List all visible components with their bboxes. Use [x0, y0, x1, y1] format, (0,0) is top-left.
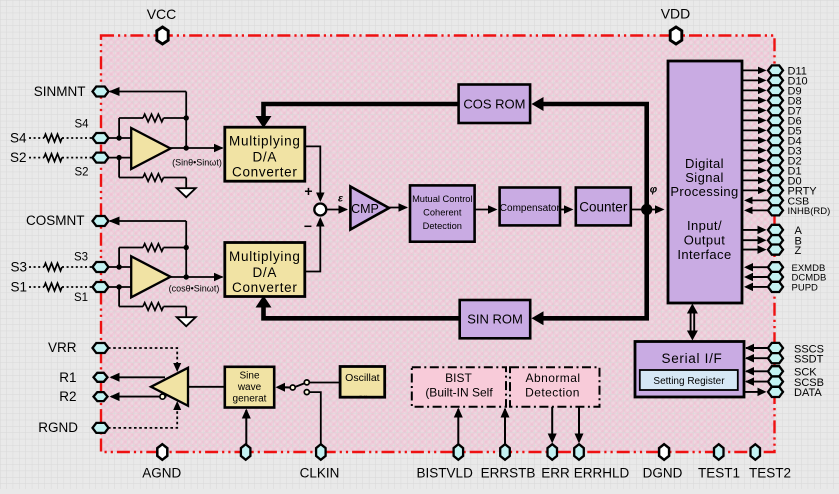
svg-text:TEST1: TEST1 — [698, 466, 740, 481]
svg-text:Serial I/F: Serial I/F — [661, 351, 722, 366]
svg-text:R2: R2 — [59, 389, 76, 404]
svg-text:Output: Output — [684, 233, 725, 248]
svg-text:(cosθ•Sinωt): (cosθ•Sinωt) — [169, 284, 220, 294]
svg-text:Detection: Detection — [423, 221, 462, 231]
svg-text:Coherent: Coherent — [423, 208, 462, 218]
svg-text:AGND: AGND — [142, 466, 181, 481]
svg-text:SINMNT: SINMNT — [34, 84, 86, 99]
svg-text:ERR: ERR — [541, 466, 570, 481]
svg-text:S4: S4 — [10, 131, 27, 146]
svg-text:(Sinθ•Sinωt): (Sinθ•Sinωt) — [172, 158, 222, 168]
svg-text:generat: generat — [233, 394, 267, 405]
svg-text:VDD: VDD — [661, 6, 691, 22]
svg-text:Interface: Interface — [677, 247, 731, 262]
svg-text:BIST: BIST — [445, 371, 472, 385]
svg-text:S2: S2 — [74, 167, 88, 179]
svg-text:RGND: RGND — [38, 420, 78, 435]
svg-text:ERRHLD: ERRHLD — [574, 466, 630, 481]
svg-text:VRR: VRR — [48, 340, 77, 355]
svg-text:Abnormal: Abnormal — [526, 371, 581, 385]
svg-text:D/A: D/A — [252, 265, 277, 280]
svg-text:Sine: Sine — [239, 371, 259, 382]
svg-text:(Built-IN Self: (Built-IN Self — [425, 386, 493, 400]
svg-text:Digital: Digital — [685, 156, 724, 171]
svg-text:−: − — [304, 218, 312, 234]
svg-text:S1: S1 — [10, 280, 27, 295]
svg-text:Setting Register: Setting Register — [653, 376, 725, 387]
svg-text:S1: S1 — [74, 292, 88, 304]
svg-text:BISTVLD: BISTVLD — [417, 466, 474, 481]
svg-text:DATA: DATA — [794, 387, 822, 399]
svg-text:Compensator: Compensator — [500, 203, 561, 214]
svg-text:ERRSTB: ERRSTB — [481, 466, 536, 481]
svg-text:+: + — [304, 183, 312, 199]
svg-text:SSDT: SSDT — [794, 354, 824, 366]
svg-text:CLKIN: CLKIN — [300, 466, 340, 481]
svg-text:S4: S4 — [74, 119, 89, 131]
svg-text:PUPD: PUPD — [792, 283, 819, 294]
svg-text:SIN ROM: SIN ROM — [467, 312, 523, 327]
svg-text:Converter: Converter — [232, 280, 298, 295]
svg-text:wave: wave — [237, 382, 262, 393]
svg-text:S2: S2 — [10, 150, 27, 165]
svg-text:CMP: CMP — [351, 202, 379, 216]
svg-text:D/A: D/A — [252, 150, 277, 165]
svg-text:Processing: Processing — [670, 184, 738, 199]
svg-text:COS ROM: COS ROM — [463, 97, 525, 112]
svg-text:COSMNT: COSMNT — [26, 213, 85, 228]
svg-text:Signal: Signal — [685, 170, 724, 185]
svg-text:R1: R1 — [59, 370, 76, 385]
svg-text:Z: Z — [795, 245, 802, 257]
svg-text:Counter: Counter — [579, 200, 628, 215]
svg-text:VCC: VCC — [147, 6, 177, 22]
svg-text:Input/: Input/ — [687, 218, 722, 233]
svg-text:INHB(RD): INHB(RD) — [788, 206, 831, 217]
svg-text:DGND: DGND — [643, 466, 683, 481]
svg-text:TEST2: TEST2 — [749, 466, 791, 481]
svg-text:Oscillat: Oscillat — [345, 372, 380, 384]
svg-text:S3: S3 — [74, 252, 88, 264]
svg-text:Multiplying: Multiplying — [229, 249, 300, 264]
svg-text:S3: S3 — [10, 260, 27, 275]
svg-text:Mutual Control: Mutual Control — [412, 194, 472, 204]
svg-text:Detection: Detection — [525, 386, 580, 400]
svg-text:Converter: Converter — [232, 165, 298, 180]
svg-text:Multiplying: Multiplying — [229, 134, 300, 149]
svg-text:φ: φ — [650, 184, 658, 196]
